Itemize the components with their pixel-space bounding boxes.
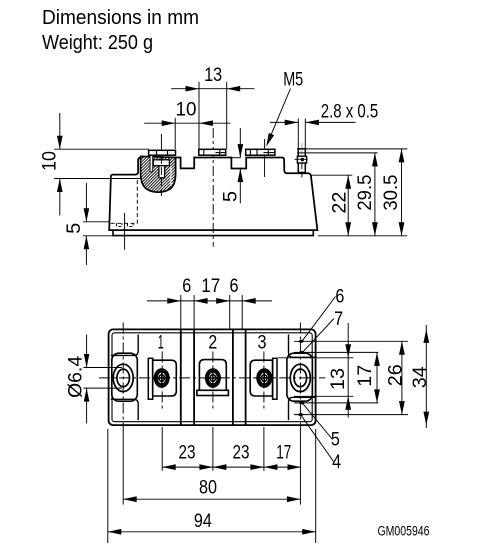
svg-text:13: 13 <box>328 368 349 390</box>
svg-text:17: 17 <box>276 442 291 463</box>
svg-text:30.5: 30.5 <box>381 175 402 211</box>
svg-text:26: 26 <box>386 364 407 386</box>
svg-text:6: 6 <box>182 276 191 297</box>
svg-text:94: 94 <box>194 511 212 532</box>
svg-text:3: 3 <box>258 333 267 354</box>
svg-text:23: 23 <box>233 442 250 463</box>
svg-text:Weight: 250 g: Weight: 250 g <box>42 31 153 54</box>
svg-text:4: 4 <box>332 452 341 473</box>
svg-text:GM005946: GM005946 <box>378 524 430 540</box>
svg-text:M5: M5 <box>283 69 303 90</box>
svg-text:13: 13 <box>204 65 222 86</box>
svg-text:6: 6 <box>230 276 239 297</box>
svg-text:2: 2 <box>208 333 217 354</box>
svg-text:23: 23 <box>179 442 196 463</box>
svg-text:Dimensions in mm: Dimensions in mm <box>42 6 199 29</box>
svg-text:2.8 x 0.5: 2.8 x 0.5 <box>321 101 379 122</box>
svg-text:7: 7 <box>334 309 343 330</box>
svg-text:6: 6 <box>335 287 344 308</box>
svg-text:10: 10 <box>39 151 60 171</box>
svg-text:34: 34 <box>410 366 431 388</box>
svg-text:5: 5 <box>64 223 85 234</box>
svg-text:10: 10 <box>176 100 197 121</box>
svg-text:22: 22 <box>329 192 350 214</box>
svg-text:Ø6.4: Ø6.4 <box>65 355 86 397</box>
svg-text:5: 5 <box>221 191 242 202</box>
svg-text:17: 17 <box>355 365 376 387</box>
svg-text:1: 1 <box>158 333 164 354</box>
svg-text:17: 17 <box>201 276 220 297</box>
svg-text:5: 5 <box>331 430 340 451</box>
svg-text:80: 80 <box>199 478 217 499</box>
svg-text:29.5: 29.5 <box>355 175 376 211</box>
